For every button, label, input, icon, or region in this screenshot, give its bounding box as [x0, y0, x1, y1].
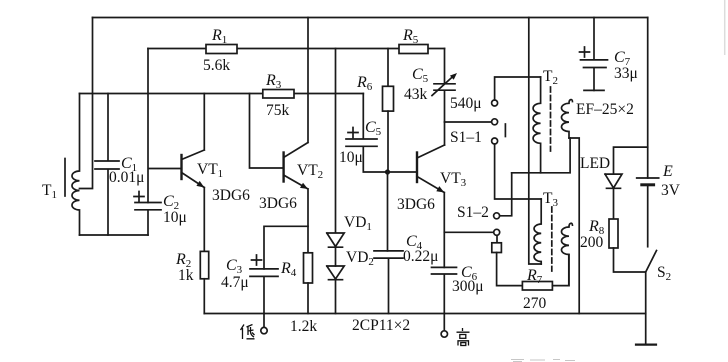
- svg-text:S2: S2: [657, 264, 671, 283]
- wire S1-1 bottom to T3 primary: [495, 144, 542, 199]
- svg-text:0.22μ: 0.22μ: [403, 248, 438, 265]
- T1 core bar: [64, 159, 66, 197]
- svg-text:VD2: VD2: [346, 249, 374, 268]
- T3 core dashed: [551, 207, 553, 271]
- transformer T3 primary coil: [534, 199, 541, 264]
- decorative faint edge artifacts: [724, 0, 726, 55]
- svg-text:3DG6: 3DG6: [397, 196, 435, 213]
- svg-text:VT3: VT3: [440, 170, 467, 189]
- switch S2 blade: [646, 251, 657, 273]
- svg-text:R3: R3: [265, 72, 282, 91]
- resistor R6: [387, 49, 389, 87]
- resistor R3: [263, 90, 294, 99]
- svg-text:C5: C5: [412, 66, 429, 85]
- svg-text:200: 200: [580, 234, 604, 251]
- wire left drop to T1 tap: [80, 18, 93, 189]
- svg-text:43k: 43k: [404, 86, 428, 103]
- wire right vertical to battery: [647, 18, 649, 179]
- svg-text:VT1: VT1: [197, 161, 223, 180]
- wire T2 secondary output: [569, 138, 579, 314]
- svg-text:S1–2: S1–2: [457, 204, 489, 221]
- wire VT3 base: [388, 171, 418, 173]
- C2 plus sign: [134, 192, 144, 202]
- wire R7 to T3 secondary: [552, 255, 568, 286]
- capacitor C5 electrolytic: [346, 94, 388, 173]
- resistor R8: [609, 219, 618, 248]
- wire long vertical to T3: [529, 18, 541, 265]
- C3 plus sign: [252, 255, 262, 265]
- resistor R5: [399, 45, 428, 54]
- svg-text:2CP11×2: 2CP11×2: [352, 317, 410, 334]
- terminal high: [443, 314, 445, 331]
- svg-text:R5: R5: [402, 27, 419, 46]
- terminal low: [263, 314, 265, 328]
- wire emitter to C6 and S1-2: [444, 232, 493, 267]
- svg-text:5.6k: 5.6k: [203, 57, 230, 74]
- svg-text:4.7μ: 4.7μ: [221, 274, 249, 291]
- S1-2 square contact: [496, 235, 498, 243]
- svg-text:1k: 1k: [178, 267, 194, 284]
- wire second rail (R1/R5 row): [148, 48, 445, 50]
- C5 variable arrow: [432, 76, 454, 96]
- capacitor C2: [135, 203, 161, 236]
- VT3 emitter arrow: [436, 186, 444, 192]
- wire square contact to R7: [497, 253, 523, 286]
- wire R2 to ground rail: [203, 279, 205, 314]
- node junction dot: [385, 169, 390, 174]
- svg-text:540μ: 540μ: [450, 95, 482, 112]
- capacitor C5 variable: [434, 49, 455, 123]
- C5 elec plus sign: [348, 128, 358, 138]
- resistor R2: [200, 251, 208, 278]
- svg-text:75k: 75k: [266, 102, 290, 119]
- svg-text:S1–1: S1–1: [450, 129, 482, 146]
- svg-text:300μ: 300μ: [452, 278, 484, 295]
- svg-text:E: E: [662, 163, 673, 180]
- switch S1-1 contacts: [492, 100, 498, 106]
- node low glyph: [241, 325, 255, 340]
- wire R4 to rail: [307, 283, 309, 314]
- wire S1-1 top to T2 primary: [495, 77, 541, 100]
- switch S1-2 contacts: [494, 213, 500, 219]
- node high glyph: [457, 328, 470, 346]
- svg-text:C5: C5: [365, 119, 382, 138]
- wire top rail: [93, 17, 648, 19]
- svg-text:R6: R6: [356, 74, 373, 93]
- svg-text:T2: T2: [543, 68, 558, 87]
- wire VT3 collector: [444, 122, 446, 145]
- svg-text:T3: T3: [543, 190, 558, 209]
- svg-text:T1: T1: [42, 182, 57, 201]
- S1-1 blade: [504, 124, 506, 137]
- diode VD1: [327, 49, 344, 267]
- wire T2 bottom link: [512, 138, 570, 173]
- capacitor C3: [250, 269, 278, 314]
- svg-text:3V: 3V: [661, 182, 681, 199]
- transistor Q VT3: [416, 153, 418, 183]
- resistor R4: [304, 253, 313, 283]
- wire to S1-1 middle contact: [445, 121, 492, 123]
- svg-text:EF–25×2: EF–25×2: [576, 101, 634, 118]
- svg-text:VT2: VT2: [297, 162, 323, 181]
- svg-text:LED: LED: [580, 155, 610, 172]
- svg-text:R4: R4: [280, 260, 297, 279]
- wire third rail: [80, 93, 364, 95]
- svg-text:10μ: 10μ: [339, 149, 363, 166]
- transformer T2 secondary coil: [562, 100, 573, 138]
- wire battery to S2: [647, 186, 649, 246]
- VT2 emitter arrow: [300, 183, 308, 189]
- resistor R7: [522, 282, 552, 291]
- LED diode: [605, 174, 622, 219]
- wire C3 branch: [264, 226, 308, 269]
- svg-text:VD1: VD1: [344, 214, 372, 233]
- svg-text:3DG6: 3DG6: [212, 187, 250, 204]
- svg-text:1.2k: 1.2k: [290, 318, 317, 335]
- battery E: [637, 177, 659, 179]
- svg-text:R7: R7: [526, 267, 543, 286]
- svg-text:33μ: 33μ: [614, 65, 638, 82]
- wire VT2 base riser: [250, 94, 284, 169]
- svg-text:3DG6: 3DG6: [259, 195, 297, 212]
- capacitor C7: [581, 18, 608, 91]
- T2 core dashed: [550, 87, 552, 151]
- capacitor C1: [95, 94, 119, 236]
- transistor Q VT2: [282, 153, 284, 182]
- wire R8 to S2: [614, 248, 646, 272]
- C7 plus sign: [580, 47, 590, 57]
- svg-text:R1: R1: [211, 27, 227, 46]
- ground bar: [636, 344, 656, 346]
- wire bottom rail: [204, 313, 645, 315]
- capacitor C4: [374, 251, 403, 314]
- wire C4 drop: [387, 172, 389, 251]
- svg-text:0.01μ: 0.01μ: [109, 169, 144, 186]
- transformer T3 secondary coil: [561, 223, 572, 285]
- svg-text:270: 270: [523, 295, 547, 312]
- diode VD2: [327, 266, 344, 314]
- wire T1 bottom rail: [80, 234, 149, 236]
- transistor Q VT1: [180, 155, 182, 179]
- wire S2 to ground: [645, 272, 647, 345]
- C7 ground bar: [584, 89, 604, 91]
- transformer T2 primary coil: [533, 77, 540, 173]
- wire LED branch top: [614, 147, 648, 174]
- transformer T1 coil: [72, 94, 80, 236]
- svg-text:10μ: 10μ: [163, 209, 187, 226]
- wire T2 secondary return to S1-2: [500, 173, 512, 216]
- capacitor C6: [432, 267, 457, 313]
- resistor R1: [206, 45, 237, 54]
- VT1 emitter arrow: [196, 181, 204, 188]
- wire drop to VT1 base and C2: [148, 49, 182, 203]
